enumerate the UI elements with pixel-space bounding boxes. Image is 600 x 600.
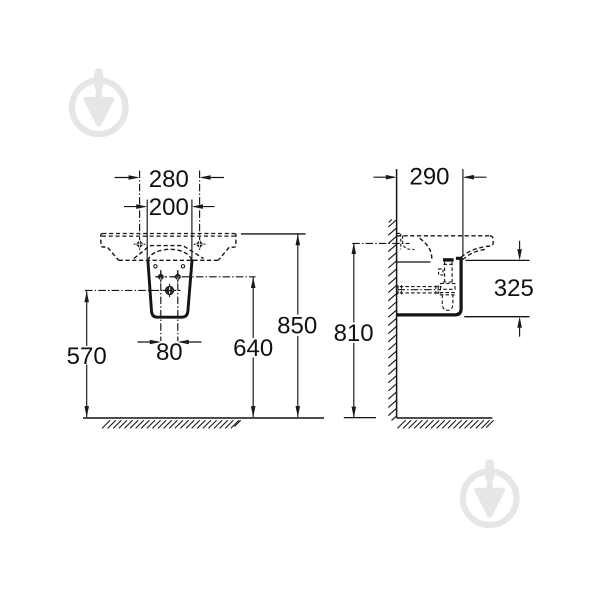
pedestal hole circle right <box>181 265 184 268</box>
centerline tap hole left (dash-dot) <box>139 171 141 250</box>
svg-text:325: 325 <box>494 275 534 302</box>
pedestal fixing cross right <box>172 271 183 282</box>
dim 850 top extension line <box>241 233 306 235</box>
floor line side view <box>397 417 493 419</box>
drain seat thick <box>443 258 454 261</box>
tap hole symbol left <box>134 238 146 250</box>
dash-dot centerline through pedestal crosses <box>156 276 256 278</box>
dim 200 extension right <box>191 200 193 260</box>
pedestal fixing cross left <box>155 271 166 282</box>
dash-dot centerline through drain cross <box>85 289 181 291</box>
pedestal drain cross big <box>163 284 176 297</box>
basin rim second dashed line <box>102 235 235 237</box>
waste pipe to wall dashed <box>398 285 442 294</box>
basin bowl arc dashed <box>148 249 192 260</box>
centerline tap hole right (dash-dot) <box>199 171 201 250</box>
dim 280 right arrow <box>200 175 224 180</box>
dim 290 left arrow <box>374 175 397 180</box>
dim 810 bottom extension <box>344 417 376 419</box>
svg-text:280: 280 <box>149 166 189 193</box>
dim 80 right arrow <box>178 340 202 345</box>
wall hatching <box>388 219 397 420</box>
dim 200 extension left <box>146 200 148 260</box>
dim 290 right extension <box>462 169 464 256</box>
dim 200 right arrow <box>192 204 215 209</box>
tap hole symbol right <box>194 238 206 250</box>
floor hatching front view <box>102 420 241 428</box>
dim 325 bottom arrow <box>517 317 522 337</box>
pedestal hole circle left <box>154 265 157 268</box>
drain tailpipe dashed <box>443 262 454 284</box>
dim 80 left arrow <box>138 340 161 345</box>
dim 200 left arrow <box>124 204 147 209</box>
trap bottle dashed <box>442 295 453 311</box>
side bowl inner dashed curve <box>461 249 485 260</box>
pedestal side profile thick <box>397 258 463 315</box>
svg-text:570: 570 <box>67 343 107 370</box>
svg-text:80: 80 <box>156 339 183 366</box>
overflow detail dashed <box>439 269 443 275</box>
basin outline left dashed <box>101 234 119 261</box>
side rim top dashed <box>397 235 490 237</box>
floor hatching side view <box>397 420 493 428</box>
dash-dot centerline 80 left <box>160 270 162 341</box>
dim 570 vertical line <box>84 291 89 417</box>
watermark bottom-right <box>463 459 517 525</box>
basin inner ledge trapezoid dashed <box>134 246 204 259</box>
pedestal outline thick <box>148 259 192 317</box>
dim 810 vertical line <box>352 243 357 418</box>
svg-text:810: 810 <box>334 320 374 347</box>
basin bottom dashed line <box>119 259 219 261</box>
basin bottom line right segment to 325 ext <box>466 259 530 261</box>
trap nut dashed <box>440 284 456 295</box>
dim 640 vertical line <box>251 277 256 417</box>
pedestal bottom extension line <box>464 316 529 318</box>
dim 290 right arrow <box>463 175 487 180</box>
floor line front view <box>83 417 324 419</box>
dim 280 left arrow <box>115 175 140 180</box>
wall bracket dashed <box>397 233 415 249</box>
dim 850 vertical line <box>296 234 301 417</box>
svg-text:200: 200 <box>149 194 189 221</box>
dash-dot centerline 80 right <box>177 270 179 341</box>
basin outline right dashed <box>218 234 236 261</box>
svg-text:850: 850 <box>277 313 317 340</box>
dim 325 top arrow <box>517 241 522 260</box>
side rim right hook dashed <box>460 236 494 258</box>
dash-dot tap height centerline <box>352 242 409 244</box>
basin bottom line left segment <box>397 261 431 263</box>
watermark top-left <box>72 68 126 134</box>
side bowl back inner curve dashed <box>420 238 432 259</box>
waste pipe centerline dash-dot <box>398 289 442 291</box>
svg-text:640: 640 <box>233 335 273 362</box>
wall edge line <box>396 169 398 418</box>
svg-text:290: 290 <box>409 164 449 191</box>
basin rim top dashed line <box>102 233 234 235</box>
